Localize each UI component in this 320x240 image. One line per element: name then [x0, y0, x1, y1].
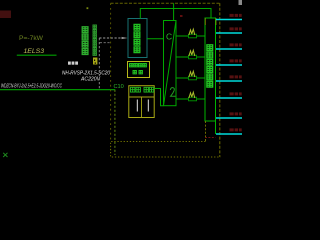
U3 divider [129, 96, 154, 98]
top distribution wire (green) [140, 9, 211, 19]
controller box U4 [205, 18, 216, 121]
stray node [180, 15, 183, 17]
U3 header labels [131, 87, 154, 92]
wire U1 to riser [147, 38, 164, 40]
olive elbow to last circuit [205, 137, 216, 139]
corner note [239, 0, 243, 5]
vertical note column A [82, 27, 88, 55]
display box U2 label [130, 64, 147, 74]
svg-text:C: C [166, 32, 172, 42]
net label block (dark red, top-left) [0, 11, 11, 19]
battery bar 1 [137, 100, 138, 112]
wire feed riser (dashed) [98, 38, 100, 90]
U3 cell divider [141, 97, 143, 118]
svg-text:P=-7kW: P=-7kW [19, 36, 43, 42]
svg-text:WDZCN-BYJ-2x2.5+E2.5-JDG20-WC/: WDZCN-BYJ-2x2.5+E2.5-JDG20-WC/CC [1, 83, 62, 89]
breaker branch 3 [176, 71, 205, 80]
riser bus diagonal [164, 21, 177, 106]
vertical note column B (spec) [93, 25, 96, 55]
feeder boundary drop (olive dashed) [110, 3, 112, 141]
floor circuit 2 [216, 32, 242, 34]
wire WDZCN run [0, 89, 115, 91]
floor circuit 5 [216, 80, 242, 82]
floor circuit 7 [216, 117, 242, 119]
floor circuit 4 [216, 64, 242, 66]
battery bar 2 [148, 100, 149, 112]
controller label [207, 45, 213, 87]
svg-text:1ELS3: 1ELS3 [24, 48, 45, 55]
controller left edge drop (olive dashed) [205, 121, 207, 142]
module box U1 (teal) [128, 19, 147, 58]
svg-text:C10: C10 [114, 84, 124, 90]
wire note dash [100, 42, 111, 44]
wire U3 to riser [154, 89, 163, 106]
controller right edge extension [215, 121, 217, 134]
fire room boundary (dotted) [111, 142, 221, 158]
yellow tag on column B [93, 58, 97, 65]
breaker branch 4 [176, 92, 205, 101]
breaker branch 1 [176, 29, 205, 38]
breaker branch 2 [176, 50, 205, 59]
wire feed arrow (dashed) [99, 37, 123, 39]
stray dash dot [87, 7, 89, 9]
wire under 1ELS3 [17, 54, 57, 56]
top feed wire (olive dashed) [111, 2, 220, 4]
floor circuit 6 [216, 97, 242, 99]
riser bus label 2 [170, 88, 175, 97]
power supply box U3 (yellow) [129, 86, 154, 118]
floor circuit 1 [216, 19, 242, 21]
module box U1 label [134, 24, 140, 52]
riser bus (diagonal box) [164, 21, 177, 106]
cable count note [68, 62, 78, 65]
break mark X [3, 153, 7, 157]
riser top drop wire [173, 3, 175, 20]
wire riser drop [114, 90, 116, 155]
top terminal marks [204, 18, 206, 25]
svg-text:AC220V: AC220V [80, 77, 101, 83]
display box U2 (yellow) [128, 62, 150, 78]
floor circuit 8 [216, 133, 242, 135]
floor circuit 3 [216, 48, 242, 50]
feeder drop right (olive dashed) [219, 3, 221, 157]
